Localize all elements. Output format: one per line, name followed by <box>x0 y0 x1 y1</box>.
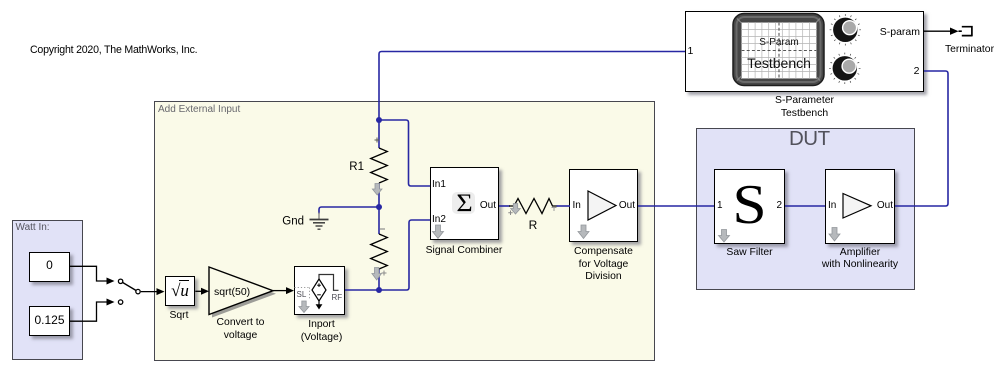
wire switch to Sqrt <box>141 288 165 295</box>
wire R to Compensate In (blue) <box>557 205 571 207</box>
wire node to In1 (blue) <box>379 120 430 186</box>
port label In2 <box>432 215 446 225</box>
label R <box>529 218 538 232</box>
Amplifier grey arrow <box>829 228 840 242</box>
Compensate grey arrow <box>578 225 589 239</box>
label Gnd <box>282 216 304 228</box>
label Amplifier with Nonlinearity <box>810 247 910 272</box>
junction node top <box>376 117 382 123</box>
label Compensate for Voltage Division <box>554 246 654 284</box>
label Signal Combiner <box>414 245 514 258</box>
ground Gnd wire (blue) <box>319 207 379 214</box>
wire Sqrt to gain <box>195 288 209 295</box>
scope screen with grid <box>742 23 817 79</box>
port label Out (Amplifier) <box>873 201 893 211</box>
area title Add External Input <box>158 104 240 115</box>
port label Out (Compensate) <box>617 201 635 211</box>
scope screen text S-Param <box>744 37 814 48</box>
label S-Parameter Testbench <box>755 95 855 120</box>
Amplifier triangle icon <box>843 194 871 219</box>
block Inport (Voltage) <box>294 266 345 315</box>
port label RF <box>332 293 343 302</box>
wire constant 0.125 to switch <box>70 299 115 322</box>
label Inport (Voltage) <box>272 319 372 344</box>
label R1 <box>349 161 364 173</box>
Inport icon: controlled source diamond <box>312 275 339 310</box>
port label 2 (Saw Filter) <box>764 201 782 211</box>
port label Out (Signal Combiner) <box>478 201 496 211</box>
ground symbol <box>310 213 329 230</box>
terminator symbol <box>959 26 972 37</box>
area Watt In <box>12 220 83 360</box>
gain value sqrt(50) <box>214 286 250 298</box>
wire S-param to Terminator <box>924 28 959 35</box>
port label 1 (Testbench) <box>688 46 694 56</box>
Compensate triangle icon <box>588 191 616 220</box>
area Add External Input <box>154 101 655 361</box>
port label In1 <box>432 180 446 190</box>
block Saw Filter <box>714 169 785 244</box>
junction node middle <box>376 204 382 210</box>
block Sqrt U1 <box>165 276 196 306</box>
R1 grey direction arrow <box>372 184 382 196</box>
wire node to In2 (blue) <box>379 220 430 290</box>
area title Watt In: <box>16 222 50 233</box>
port label S-param <box>870 27 920 37</box>
scope screen text Testbench <box>744 55 814 71</box>
label Convert to voltage <box>191 317 291 342</box>
Signal Combiner In2 grey arrow <box>433 225 444 239</box>
port label In (Amplifier) <box>828 201 836 211</box>
block constant 0.125 <box>29 306 70 336</box>
saw filter S icon <box>710 179 788 232</box>
svg-text:R1: R1 <box>349 161 364 173</box>
area title DUT <box>789 127 830 151</box>
Inport SL down arrow <box>299 301 309 313</box>
block Compensate for Voltage Division <box>569 169 638 242</box>
resistor R2 <box>371 229 388 269</box>
wire node to testbench port 1 (blue) <box>379 52 685 121</box>
R2 grey direction arrow with plus <box>372 268 387 281</box>
port label 2 (Testbench) <box>902 66 920 76</box>
wire Out to resistor R (blue) <box>499 205 510 207</box>
port label SL <box>297 290 307 299</box>
svg-text:Gnd: Gnd <box>282 216 304 228</box>
label Saw Filter <box>700 247 800 260</box>
block S-Parameter Testbench <box>685 11 924 92</box>
knob 2 <box>829 53 860 84</box>
area DUT <box>696 128 915 290</box>
wire gain to Inport <box>273 287 294 294</box>
knob 1 <box>830 14 861 45</box>
svg-text:R: R <box>529 218 538 232</box>
scope icon bezel <box>733 14 824 86</box>
annotation: Copyright 2020, The MathWorks, Inc. <box>30 44 197 56</box>
sigma icon <box>452 192 475 215</box>
block Signal Combiner <box>430 167 499 240</box>
port label In (Compensate) <box>573 201 581 211</box>
Saw Filter grey arrow <box>719 230 730 243</box>
R grey direction arrow <box>508 204 556 216</box>
Inport SL port label <box>295 288 310 299</box>
wire Inport RF to node (blue) <box>345 289 379 291</box>
wire Compensate Out to Saw Filter (blue) <box>638 205 714 207</box>
block Amplifier with Nonlinearity <box>825 169 895 244</box>
label Terminator <box>920 44 1005 57</box>
manual switch <box>118 279 140 304</box>
junction node bottom <box>376 287 382 293</box>
resistor R <box>509 199 558 214</box>
gain Convert to voltage <box>209 267 276 318</box>
label Sqrt <box>149 310 209 323</box>
port label 1 (Saw Filter) <box>717 201 723 211</box>
wire Amplifier Out to testbench port 2 (blue) <box>895 71 948 206</box>
wire Saw Filter to Amplifier (blue) <box>785 205 825 207</box>
resistor R1 <box>371 138 388 184</box>
wire constant 0 to switch <box>70 266 115 284</box>
block constant 0 <box>29 252 70 282</box>
wire R1 leads (blue) <box>378 120 380 290</box>
